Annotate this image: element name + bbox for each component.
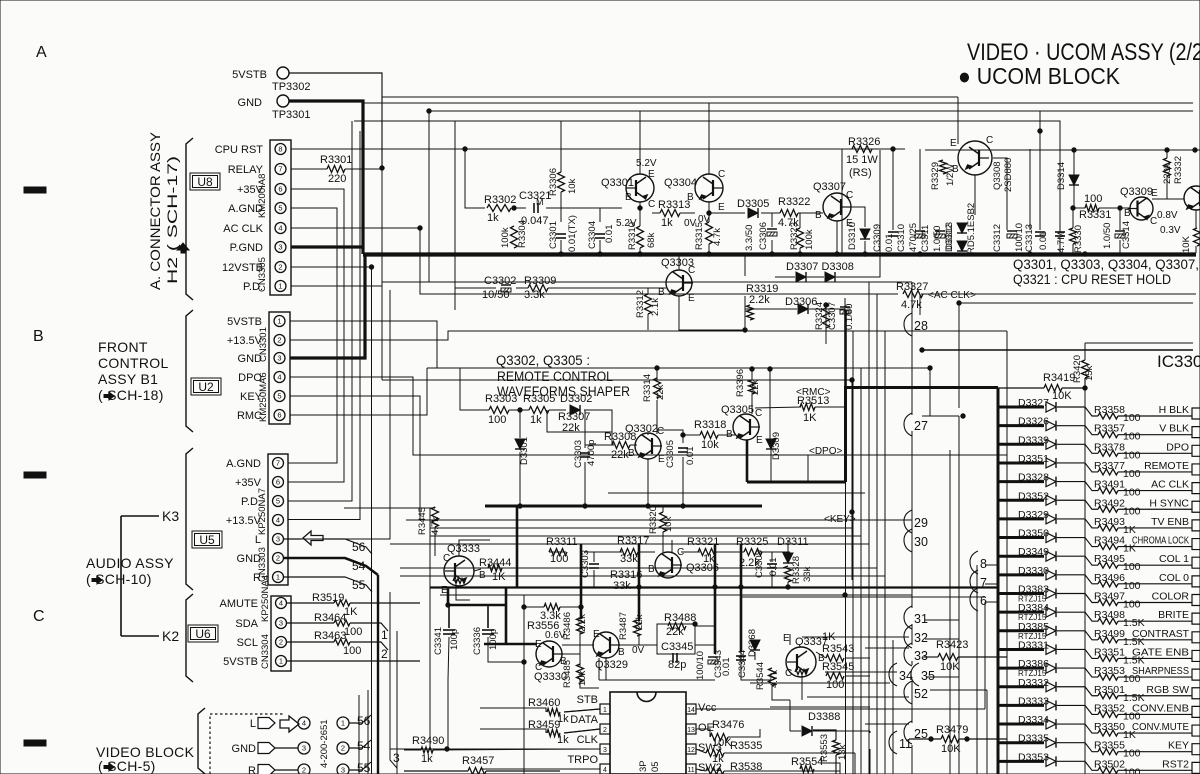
- svg-text:2: 2: [276, 554, 280, 563]
- junction: [928, 366, 932, 370]
- wire: [345, 168, 382, 170]
- svg-text:220: 220: [328, 173, 346, 185]
- junction: [693, 622, 697, 626]
- svg-text:12: 12: [687, 747, 695, 754]
- wire: [974, 175, 976, 215]
- svg-text:E: E: [593, 629, 600, 640]
- wire: [751, 394, 753, 414]
- wire: [958, 416, 960, 774]
- svg-text:0.01: 0.01: [685, 447, 696, 466]
- ic pin stub H SYNC: [1192, 501, 1200, 512]
- wire: [381, 73, 383, 380]
- svg-text:2.1k: 2.1k: [650, 298, 661, 316]
- wire D3353 to resistor: [1057, 761, 1098, 770]
- svg-text:22k: 22k: [562, 422, 580, 434]
- wire: [382, 281, 912, 283]
- svg-text:R3457: R3457: [462, 755, 494, 767]
- junction: [646, 504, 650, 508]
- bus entry pin 7: [970, 570, 978, 593]
- svg-text:1k: 1k: [703, 553, 715, 565]
- bus entry pin 29: [904, 510, 912, 533]
- junction: [707, 252, 711, 256]
- ic pin CLK: [600, 744, 610, 754]
- wire: [985, 564, 998, 566]
- wire: [459, 540, 490, 556]
- svg-text:33k: 33k: [620, 553, 638, 565]
- junction: [1072, 148, 1076, 152]
- wire: [560, 240, 562, 253]
- junction: [518, 408, 522, 412]
- wire: [390, 748, 600, 750]
- wire: [638, 544, 641, 621]
- svg-text:R3317: R3317: [617, 535, 649, 547]
- svg-text:6: 6: [278, 185, 282, 194]
- svg-text:1k: 1k: [661, 217, 673, 229]
- wire: [926, 676, 959, 678]
- svg-text:<AC CLK>: <AC CLK>: [928, 290, 976, 301]
- svg-text:2: 2: [603, 727, 607, 734]
- wire: [291, 148, 905, 150]
- svg-text:470/25: 470/25: [908, 223, 919, 252]
- wire: [844, 310, 847, 386]
- svg-text:5.2V: 5.2V: [616, 218, 637, 229]
- wire: [985, 601, 998, 603]
- svg-text:R3330: R3330: [1073, 225, 1084, 253]
- svg-text:0.3V: 0.3V: [1160, 225, 1181, 236]
- wire: [1152, 198, 1184, 200]
- wire R3457: [404, 770, 468, 772]
- svg-text:4.7k: 4.7k: [769, 670, 780, 688]
- svg-text:100: 100: [1123, 412, 1141, 424]
- arrow into pin L: [303, 531, 323, 545]
- ic pin stub COL 0: [1192, 576, 1200, 587]
- svg-text:D3310: D3310: [847, 222, 858, 250]
- wire: [816, 652, 826, 658]
- svg-text:R3331: R3331: [1079, 209, 1111, 221]
- svg-text:R3535: R3535: [730, 740, 762, 752]
- bus entry pin 30: [904, 529, 912, 552]
- svg-text:R3303: R3303: [485, 393, 517, 405]
- wire: [618, 644, 657, 646]
- wire: [813, 730, 870, 732]
- svg-text:52: 52: [914, 687, 928, 701]
- ic pin stub V BLK: [1192, 427, 1200, 438]
- svg-text:BRITE: BRITE: [1158, 609, 1189, 621]
- wire: [505, 588, 508, 644]
- diode D3351 row REMOTE: [998, 461, 1044, 464]
- wire: [389, 592, 391, 700]
- wire U5 L to net 56: [284, 538, 301, 540]
- svg-text:1: 1: [279, 657, 283, 666]
- ic pin SW2: [686, 764, 696, 774]
- svg-text:KEY: KEY: [1168, 740, 1189, 752]
- svg-text:C: C: [718, 169, 725, 180]
- bus entry pin 28: [904, 313, 912, 336]
- wire: [695, 625, 715, 627]
- svg-text:D3302: D3302: [560, 393, 592, 405]
- wire: [1099, 207, 1130, 209]
- wire: [744, 256, 746, 276]
- svg-text:E: E: [688, 293, 695, 304]
- wire: [548, 287, 666, 289]
- bus wire vertical: [884, 331, 886, 774]
- svg-text:<KEY>: <KEY>: [824, 514, 856, 525]
- svg-text:1: 1: [277, 317, 281, 326]
- wire: [807, 696, 909, 698]
- svg-text:3: 3: [341, 766, 345, 774]
- wire U5 GND to net 54: [284, 558, 378, 575]
- svg-text:D3350: D3350: [1018, 528, 1049, 540]
- wire: [679, 296, 745, 330]
- wire: [657, 430, 683, 443]
- svg-text:1k: 1k: [530, 414, 542, 426]
- wire: [892, 640, 894, 774]
- svg-text:Q3302, Q3305 :: Q3302, Q3305 :: [496, 353, 590, 368]
- wire: [911, 681, 913, 723]
- svg-text:D3328: D3328: [1018, 472, 1049, 484]
- junction: [579, 605, 583, 609]
- wire: [1073, 207, 1085, 209]
- diode D3331 row GATE ENB: [998, 648, 1044, 651]
- ic pin STB: [600, 704, 610, 714]
- svg-text:5.2V: 5.2V: [636, 158, 657, 169]
- wire: [1059, 238, 1061, 253]
- ic pin Vcc: [686, 704, 696, 714]
- wire: [708, 244, 710, 253]
- svg-text:COL 1: COL 1: [1159, 553, 1189, 565]
- wire: [929, 368, 931, 416]
- svg-text:2: 2: [278, 263, 282, 272]
- svg-text:2: 2: [277, 336, 281, 345]
- wire: [430, 110, 1193, 112]
- svg-text:COL 0: COL 0: [1159, 572, 1189, 584]
- wire: [519, 452, 521, 506]
- wire: [799, 213, 801, 228]
- diode D3333 row CONV.ENB: [998, 704, 1044, 707]
- diode D3329 row TV ENB: [998, 517, 1044, 520]
- svg-text:82p: 82p: [668, 659, 686, 671]
- svg-text:B: B: [648, 564, 655, 575]
- wire: [790, 730, 801, 732]
- svg-text:D3307 D3308: D3307 D3308: [786, 261, 854, 273]
- wire: [985, 583, 998, 585]
- wire: [448, 605, 450, 628]
- wire: [406, 519, 420, 521]
- svg-text:C3336: C3336: [472, 627, 483, 655]
- connector CN3305 body: [270, 140, 291, 295]
- svg-text:R3304: R3304: [517, 220, 528, 248]
- svg-text:U6: U6: [195, 627, 211, 641]
- svg-text:R3322: R3322: [778, 196, 810, 208]
- wire: [1029, 149, 1031, 230]
- margin tick 1: [24, 187, 46, 193]
- svg-text:R3321: R3321: [687, 536, 719, 548]
- svg-text:R3488: R3488: [664, 612, 696, 624]
- svg-text:P.GND: P.GND: [230, 242, 263, 254]
- diode D3332 row RGB SW: [998, 685, 1044, 688]
- junction: [920, 348, 924, 352]
- svg-text:13: 13: [687, 727, 695, 734]
- wire: [740, 544, 743, 652]
- svg-text:0.01: 0.01: [884, 234, 895, 253]
- svg-text:CN3304: CN3304: [260, 634, 271, 669]
- wire: [584, 410, 612, 445]
- wire: [290, 321, 437, 368]
- svg-text:R3476: R3476: [712, 719, 744, 731]
- junction R3479 right: [965, 737, 969, 741]
- connector CN3301 body: [269, 312, 290, 424]
- svg-text:REMOTE CONTROL: REMOTE CONTROL: [497, 369, 613, 384]
- junction: [798, 252, 802, 256]
- svg-text:H2 ( SCH-17): H2 ( SCH-17): [164, 156, 180, 284]
- svg-text:U5: U5: [199, 533, 215, 547]
- svg-text:IC330: IC330: [1157, 352, 1200, 371]
- svg-text:AUDIO ASSY: AUDIO ASSY: [86, 555, 174, 571]
- svg-text:DPO: DPO: [1166, 441, 1189, 453]
- svg-text:C: C: [657, 426, 664, 437]
- wire: [561, 653, 580, 655]
- wire: [911, 745, 913, 774]
- wire: [892, 149, 894, 230]
- diode D3334 row CONV.MUTE: [998, 723, 1044, 726]
- svg-text:GND: GND: [238, 97, 263, 109]
- svg-text:Vcc: Vcc: [698, 702, 717, 714]
- svg-text:100k: 100k: [500, 227, 511, 248]
- bracket connector U6: [186, 594, 193, 682]
- wire: [599, 208, 601, 222]
- svg-text:28: 28: [914, 319, 928, 333]
- ic pin stub CONV.MUTE: [1192, 725, 1200, 736]
- svg-text:C3307: C3307: [827, 302, 838, 330]
- wire: [770, 449, 772, 482]
- junction: [638, 252, 642, 256]
- svg-text:2SD880: 2SD880: [1003, 158, 1014, 192]
- wire: [695, 644, 715, 646]
- junction: [518, 504, 522, 508]
- diode D3368: [750, 640, 760, 650]
- wire: [560, 192, 562, 222]
- wire: [291, 285, 382, 287]
- svg-text:H SYNC: H SYNC: [1149, 497, 1189, 509]
- wire D3333 to resistor: [1057, 705, 1098, 714]
- svg-text:COLOR: COLOR: [1152, 591, 1190, 603]
- svg-text:● UCOM BLOCK: ● UCOM BLOCK: [958, 63, 1121, 89]
- svg-text:1: 1: [278, 282, 282, 291]
- svg-text:R3315: R3315: [694, 222, 705, 250]
- wire: [770, 706, 870, 708]
- wire: [1073, 184, 1075, 208]
- diode D3353 row RST2: [998, 760, 1044, 763]
- wire: [696, 769, 706, 771]
- net label K2: [121, 635, 159, 637]
- svg-text:0V: 0V: [632, 645, 645, 656]
- svg-text:10K: 10K: [1052, 390, 1072, 402]
- svg-text:R3545: R3545: [822, 661, 854, 673]
- junction: [824, 303, 828, 307]
- svg-text:1k: 1k: [421, 753, 433, 765]
- svg-text:33k: 33k: [613, 580, 631, 592]
- svg-text:100: 100: [1123, 449, 1141, 461]
- wire: [396, 631, 398, 774]
- wire: [728, 729, 760, 737]
- diode D3385 row CONTRAST: [998, 629, 1044, 632]
- svg-text:C: C: [785, 668, 792, 679]
- wire: [480, 768, 600, 770]
- svg-text:D3333: D3333: [1018, 695, 1049, 707]
- connector CN3303 body: [268, 454, 288, 585]
- svg-text:V BLK: V BLK: [1159, 423, 1189, 435]
- wire: [434, 527, 436, 556]
- svg-text:RST2: RST2: [1162, 758, 1189, 770]
- svg-text:SCL: SCL: [237, 637, 258, 649]
- wire: [925, 149, 1200, 151]
- wire: [841, 149, 843, 253]
- wire: [608, 492, 865, 494]
- wire: [564, 729, 600, 733]
- svg-text:GATE ENB: GATE ENB: [1132, 646, 1189, 658]
- svg-text:D3335: D3335: [1018, 733, 1049, 745]
- box U2: [191, 378, 221, 395]
- wire: [807, 276, 824, 278]
- wire: [599, 240, 601, 253]
- svg-text:C3304: C3304: [587, 221, 598, 249]
- wire: [825, 305, 827, 330]
- ladder bus vertical 2: [1006, 331, 1008, 774]
- svg-text:RGB SW: RGB SW: [1146, 684, 1189, 696]
- wire: [959, 302, 1193, 304]
- svg-text:E: E: [950, 138, 957, 149]
- wire video L to net 56: [349, 715, 371, 723]
- bracket connector U5: [186, 448, 193, 590]
- thick feeder bus horizontal: [845, 386, 998, 389]
- wire: [845, 657, 870, 659]
- svg-text:<DPO>: <DPO>: [809, 446, 843, 457]
- svg-text:0.01(TX): 0.01(TX): [567, 215, 578, 252]
- diode D3350 row CHROMA LOCK: [998, 536, 1044, 539]
- wire: [744, 296, 746, 330]
- diode D3309: [766, 439, 776, 449]
- svg-text:D3332: D3332: [1018, 677, 1049, 689]
- svg-text:AC CLK: AC CLK: [1151, 479, 1189, 491]
- svg-text:3: 3: [393, 751, 400, 765]
- wire: [760, 551, 790, 553]
- junction: [512, 206, 516, 210]
- wire: [984, 602, 986, 709]
- svg-text:1k: 1k: [487, 212, 499, 224]
- bracket connector U8: [186, 138, 193, 300]
- svg-text:15 1W: 15 1W: [846, 154, 878, 166]
- svg-text:100: 100: [1084, 193, 1102, 205]
- junction: [1028, 252, 1032, 256]
- svg-text:C: C: [986, 135, 993, 146]
- diode D3314: [1069, 175, 1079, 185]
- wire: [708, 202, 710, 222]
- svg-text:1K: 1K: [803, 412, 817, 424]
- svg-text:R3312: R3312: [635, 290, 646, 318]
- wire: [560, 121, 562, 172]
- svg-text:10K: 10K: [940, 661, 960, 673]
- svg-text:D3305: D3305: [737, 198, 769, 210]
- svg-text:RD5.1ESB2: RD5.1ESB2: [966, 203, 977, 254]
- wire: [291, 168, 327, 170]
- wire: [746, 440, 749, 482]
- wire: [1195, 246, 1197, 253]
- junction: [750, 367, 754, 371]
- svg-text:C3302: C3302: [484, 275, 516, 287]
- svg-text:4: 4: [302, 719, 306, 728]
- svg-text:D3329: D3329: [1018, 509, 1049, 521]
- svg-text:1k: 1k: [557, 734, 569, 746]
- margin tick 3: [24, 740, 46, 746]
- svg-text:B: B: [628, 448, 635, 459]
- bus wire vertical: [860, 369, 862, 774]
- svg-text:D3353: D3353: [1018, 751, 1049, 763]
- wire: [671, 540, 673, 553]
- wire: [400, 575, 885, 577]
- wire: [696, 708, 985, 710]
- bus wire vertical: [852, 331, 854, 774]
- wire: [724, 752, 855, 754]
- svg-text:1/2W: 1/2W: [945, 164, 956, 186]
- svg-text:0.01: 0.01: [1038, 232, 1049, 251]
- svg-text:R3538: R3538: [730, 761, 762, 773]
- wire: [1085, 342, 1193, 344]
- svg-text:D3388: D3388: [808, 711, 840, 723]
- wire TP3302 to bus: [289, 73, 382, 168]
- wire: [524, 606, 544, 608]
- wire: [290, 368, 427, 415]
- wire: [480, 729, 546, 733]
- junction: [1038, 129, 1042, 133]
- wire: [516, 287, 528, 289]
- svg-text:6: 6: [277, 411, 281, 420]
- svg-text:R3479: R3479: [936, 724, 968, 736]
- wire: [377, 575, 379, 774]
- svg-text:DATA: DATA: [570, 714, 598, 726]
- wire: [771, 240, 773, 253]
- resistor R3328: [785, 566, 792, 582]
- wire: [771, 570, 773, 587]
- ic pin stub COL 1: [1192, 557, 1200, 568]
- wire: [465, 149, 485, 208]
- wire D3349 to resistor: [1057, 556, 1098, 565]
- svg-text:1K: 1K: [822, 631, 836, 643]
- wire: [836, 150, 880, 277]
- margin tick 2: [24, 472, 46, 478]
- resistor R3307 feedback box: [547, 410, 612, 432]
- svg-text:6: 6: [980, 594, 987, 608]
- wire D3383 to resistor: [1057, 594, 1098, 603]
- wire: [993, 158, 1007, 230]
- svg-text:H BLK: H BLK: [1159, 404, 1189, 416]
- ic pin stub CONV.ENB: [1192, 706, 1200, 717]
- wire: [1073, 150, 1075, 175]
- wire: [845, 482, 847, 774]
- wire: [709, 212, 745, 214]
- wire R3459 to DATA: [564, 729, 600, 733]
- svg-text:E: E: [535, 639, 542, 650]
- svg-text:R3554: R3554: [791, 756, 823, 768]
- svg-text:D3312: D3312: [944, 224, 955, 252]
- ic pin OE: [686, 724, 696, 734]
- svg-text:10k: 10k: [663, 516, 674, 532]
- junction: [369, 265, 373, 269]
- wire: [957, 97, 959, 144]
- junction: [891, 147, 895, 151]
- wire: [502, 567, 517, 569]
- wire: [1059, 215, 1061, 232]
- wire: [678, 256, 680, 270]
